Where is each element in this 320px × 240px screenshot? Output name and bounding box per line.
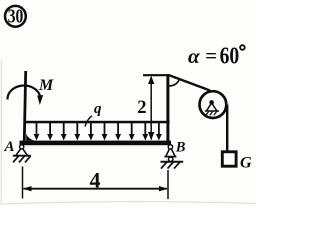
pulley axle legs	[207, 103, 217, 111]
pulley axle ground	[205, 110, 219, 112]
moment M arc	[7, 86, 40, 100]
dim 4 extension left	[22, 167, 24, 199]
load arrow 2	[49, 123, 51, 135]
dim 4 left arrow	[23, 186, 32, 191]
dim 2 up arrow	[148, 76, 154, 84]
load arrow 3	[63, 123, 65, 135]
svg-text:4: 4	[90, 168, 101, 193]
dim 2 line	[150, 77, 152, 140]
rope from pulley to weight	[226, 105, 228, 151]
moment M arrowhead	[37, 95, 43, 105]
svg-text:2: 2	[137, 98, 146, 118]
roller support B ground	[161, 161, 184, 163]
rope from post top to pulley	[170, 75, 211, 90]
pin support A base	[13, 155, 31, 157]
roller support B roller	[169, 157, 173, 161]
load arrow 9	[144, 123, 146, 135]
load arrow 7	[117, 123, 119, 135]
roller support B legs	[166, 149, 175, 157]
load arrow 10	[158, 123, 160, 135]
distributed load line	[24, 121, 170, 124]
dim 4 line	[24, 188, 168, 190]
scan artifact left edge	[0, 60, 2, 205]
post at B	[166, 74, 169, 141]
roller support B hatches	[161, 162, 180, 169]
problem number circle 30	[5, 6, 26, 27]
pin support A hatches	[13, 156, 31, 163]
fillet wedge at post/beam joint	[26, 134, 35, 141]
pin support A circle	[20, 145, 24, 149]
svg-text:A: A	[4, 139, 15, 155]
dim 2 down arrow	[148, 132, 154, 140]
weight G box	[222, 152, 236, 166]
svg-text:60: 60	[220, 44, 240, 70]
scan artifact bottom edge	[2, 202, 256, 204]
svg-text:30: 30	[8, 7, 24, 28]
svg-text:q: q	[94, 101, 102, 117]
svg-text:α: α	[188, 44, 200, 68]
pin support A legs	[16, 149, 27, 156]
load arrow 6	[104, 123, 106, 135]
dim 4 extension right	[167, 170, 169, 199]
svg-text:B: B	[175, 139, 186, 155]
load arrowheads	[34, 134, 162, 141]
angle alpha arc at corner	[169, 79, 179, 86]
load arrow 4	[76, 123, 78, 135]
svg-text:=: =	[205, 46, 217, 68]
load arrow 1	[37, 123, 159, 135]
pulley axle pin dot	[209, 100, 214, 105]
post at A	[24, 71, 25, 141]
roller support B base	[164, 156, 176, 158]
roller support B circle	[168, 145, 172, 149]
pulley axle hatches	[206, 111, 217, 115]
load arrow 8	[131, 123, 133, 135]
load arrow 5	[90, 123, 92, 135]
q leader line	[85, 116, 92, 127]
beam	[20, 141, 172, 146]
top extension line for dim 2	[143, 74, 170, 76]
pulley circle	[200, 91, 227, 118]
svg-text:M: M	[38, 77, 54, 94]
svg-text:G: G	[240, 154, 252, 171]
dim 4 right arrow	[159, 186, 168, 191]
